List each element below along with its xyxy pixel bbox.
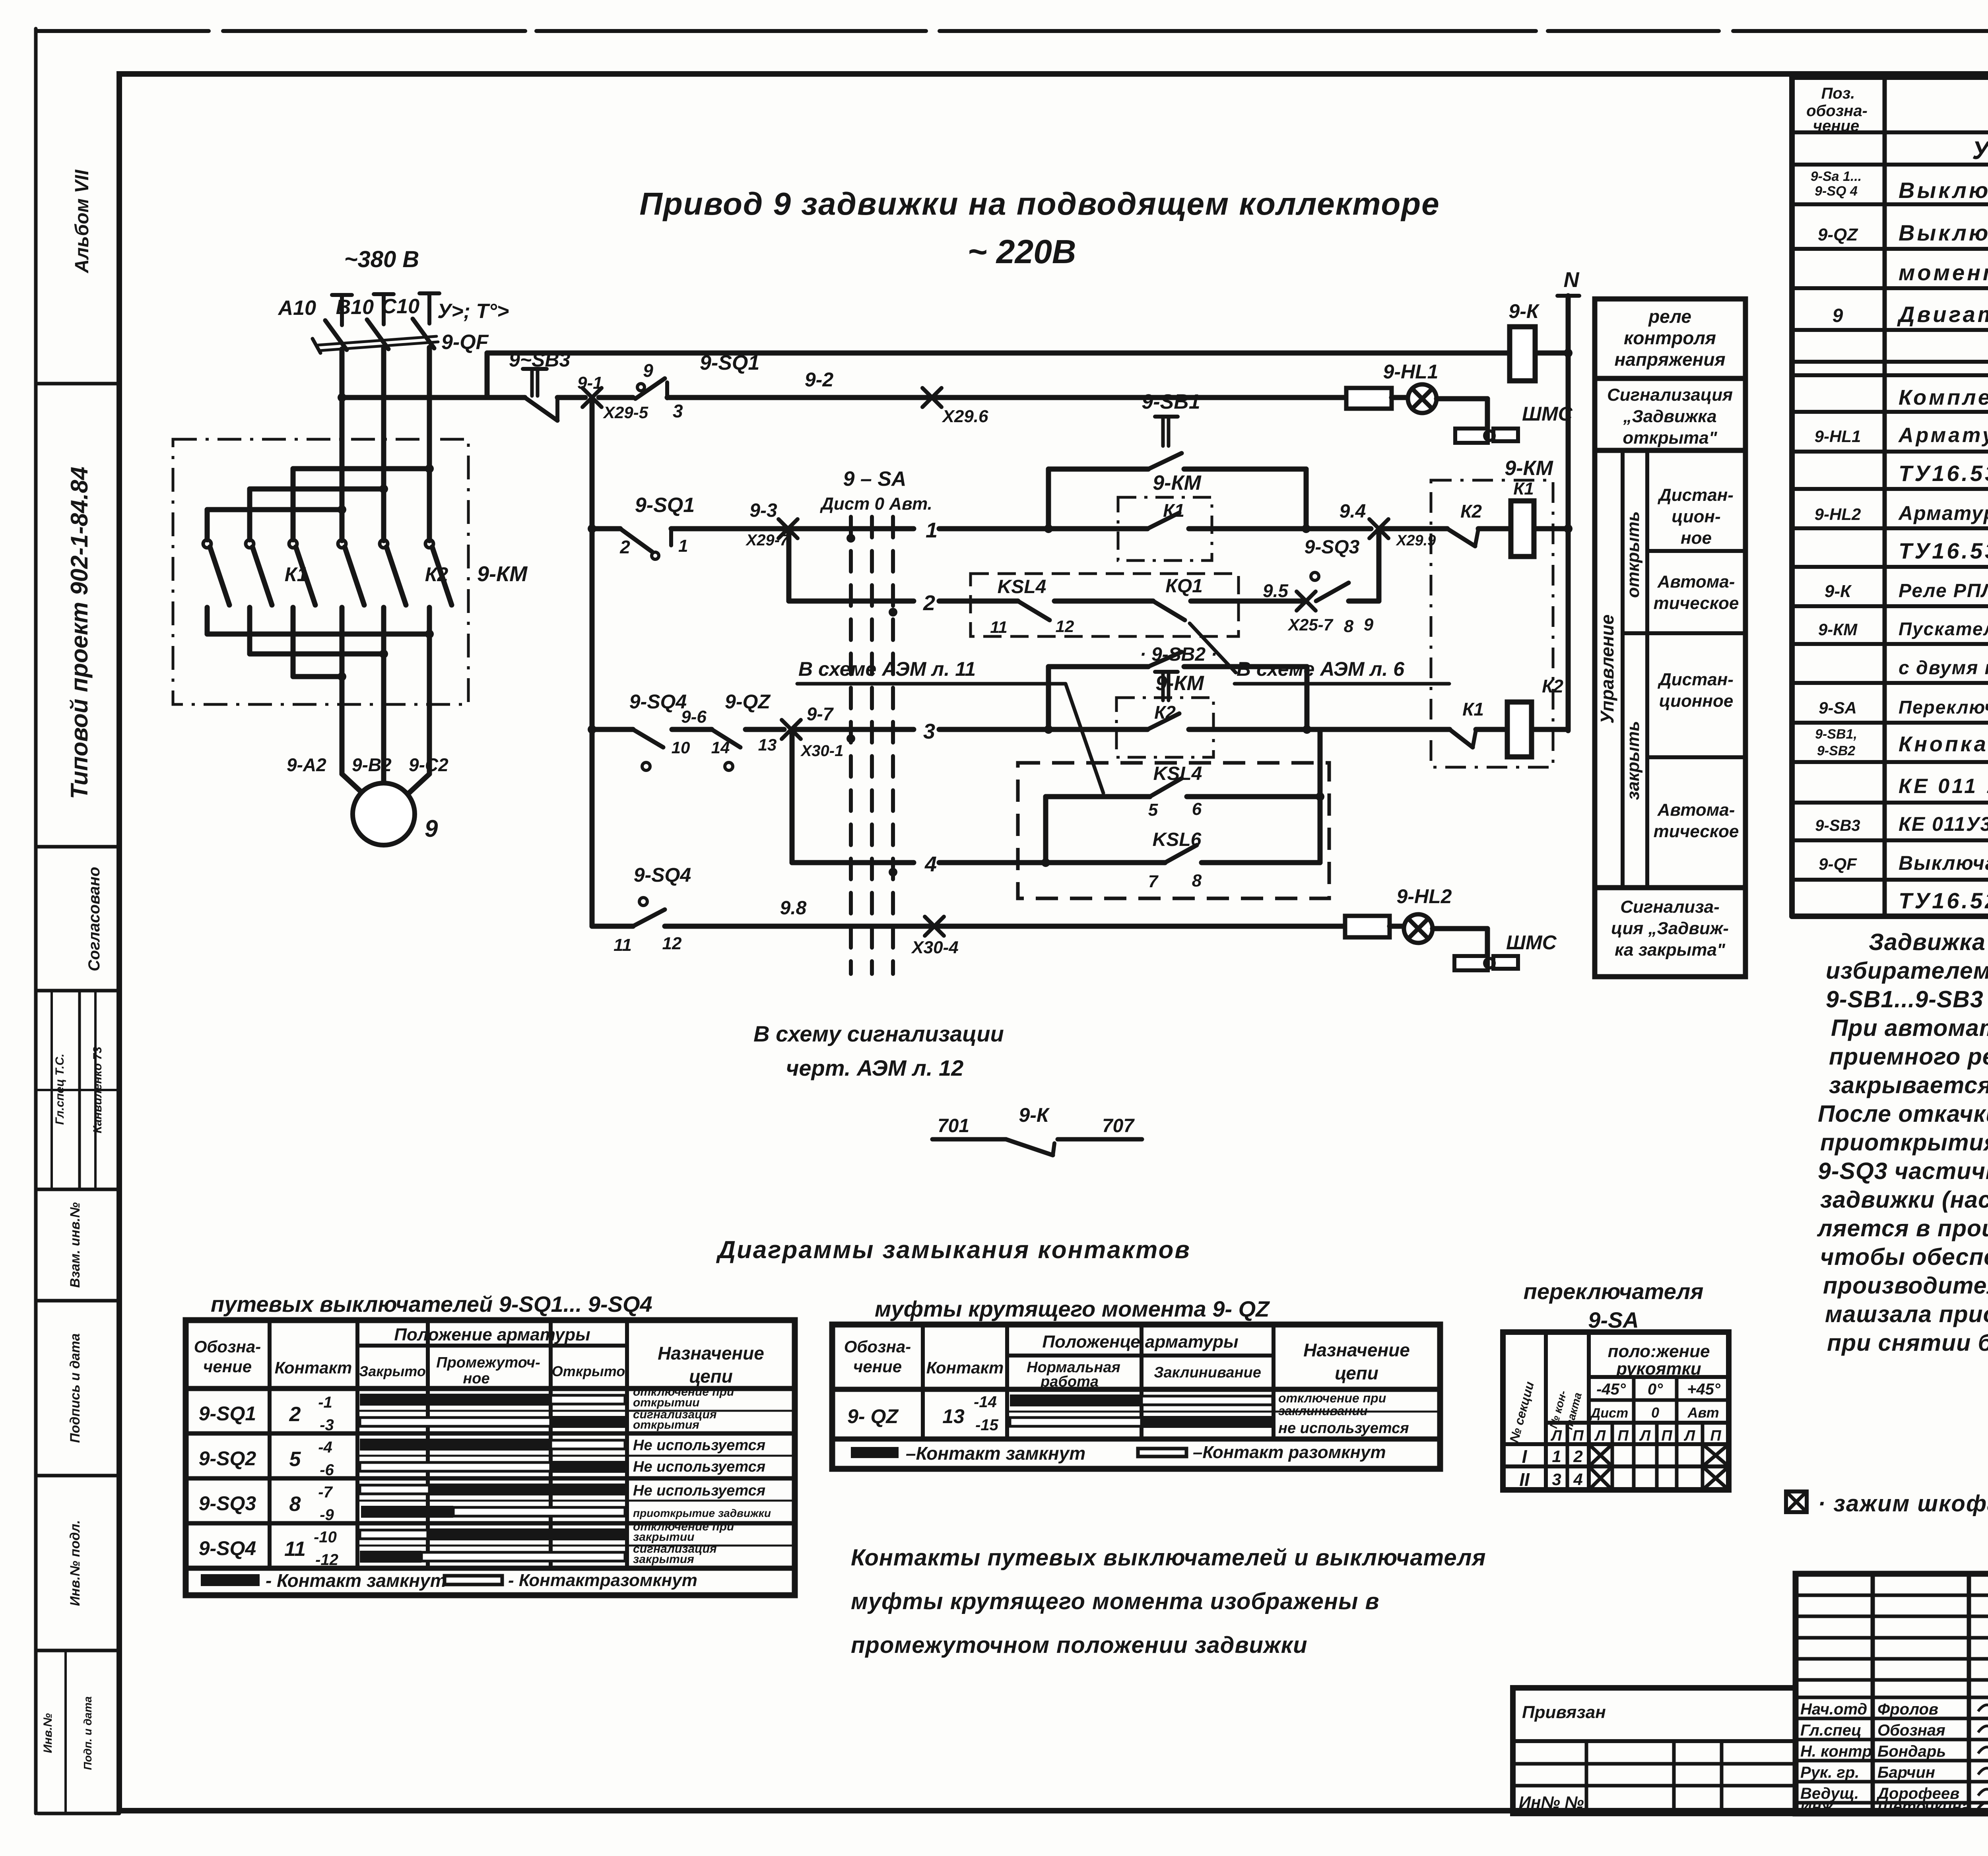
svg-text:Открыто: Открыто bbox=[552, 1363, 625, 1379]
svg-text:Диаграммы замыкания ко: Диаграммы замыкания контактов bbox=[716, 1236, 1191, 1264]
svg-text:чение: чение bbox=[1813, 117, 1859, 135]
svg-text:9-HL2: 9-HL2 bbox=[1815, 505, 1861, 524]
svg-text:ционное: ционное bbox=[1659, 691, 1734, 711]
contactor pole 6 bbox=[425, 540, 433, 548]
svg-text:закрытия: закрытия bbox=[633, 1553, 694, 1566]
svg-text:чение: чение bbox=[853, 1357, 902, 1376]
contactor coils dash-dot box bbox=[1431, 480, 1553, 767]
svg-text:3: 3 bbox=[1552, 1470, 1561, 1489]
svg-text:9-SB1,: 9-SB1, bbox=[1815, 727, 1857, 742]
table torque switch grid bbox=[832, 1325, 1440, 1469]
svg-text:Л: Л bbox=[1550, 1427, 1562, 1444]
svg-text:ШМС: ШМС bbox=[1506, 931, 1557, 954]
svg-text:Дистан-: Дистан- bbox=[1657, 485, 1734, 505]
contact KSL4 5-6 branch bbox=[1043, 797, 1048, 863]
pushbutton 9-SB2 bypass loop bbox=[1046, 667, 1051, 729]
svg-text:черт. АЭМ л. 12: черт. АЭМ л. 12 bbox=[786, 1055, 964, 1080]
svg-text:Дистан-: Дистан- bbox=[1657, 670, 1734, 689]
table selector data bbox=[1519, 1444, 1729, 1490]
function box: signal valve closed bbox=[1595, 888, 1745, 977]
svg-text:-45°: -45° bbox=[1596, 1381, 1626, 1398]
table selector grid bbox=[1503, 1332, 1729, 1490]
svg-text:с двумя приставками контактным: с двумя приставками контактными ПКЛ2204 bbox=[1899, 657, 1988, 679]
svg-text:Выключатель муфты крутящег: Выключатель муфты крутящего bbox=[1899, 220, 1988, 245]
svg-text:Авт: Авт bbox=[1687, 1404, 1719, 1421]
svg-text:9-КМ: 9-КМ bbox=[1155, 672, 1204, 695]
svg-text:Рук. гр.: Рук. гр. bbox=[1800, 1764, 1859, 1781]
svg-text:Привязан: Привязан bbox=[1522, 1703, 1606, 1722]
contactor 9-KM power dash-dot box bbox=[173, 439, 468, 704]
svg-text:9: 9 bbox=[1833, 305, 1843, 326]
svg-text:10: 10 bbox=[672, 738, 690, 757]
interlock contact K1 on rail5 bbox=[1307, 727, 1450, 732]
svg-text:Закрыто: Закрыто bbox=[359, 1363, 426, 1379]
svg-text:9-КМ: 9-КМ bbox=[1153, 471, 1202, 495]
terminal X29-7 bbox=[779, 519, 798, 538]
svg-text:напряжения: напряжения bbox=[1614, 349, 1725, 370]
svg-text:Положение арматуры: Положение арматуры bbox=[394, 1325, 590, 1344]
svg-text:9- QZ: 9- QZ bbox=[847, 1405, 899, 1427]
svg-text:Арматура АМЕ 3232Н1У2, U~: Арматура АМЕ 3232Н1У2, U~ 220В, bbox=[1898, 424, 1988, 447]
table torque switch data bbox=[847, 1391, 1409, 1437]
svg-text:12: 12 bbox=[662, 934, 682, 953]
svg-text:Задвижка имеет два вида уп: Задвижка имеет два вида управления, выби… bbox=[1869, 929, 1988, 955]
left control bus bbox=[590, 399, 595, 926]
svg-text:9-В2: 9-В2 bbox=[352, 754, 392, 775]
svg-text:1: 1 bbox=[1552, 1447, 1561, 1466]
svg-text:9-SA: 9-SA bbox=[1819, 698, 1857, 717]
svg-text:приемного резервуара или за: приемного резервуара или затоплении машз… bbox=[1829, 1043, 1988, 1070]
svg-text:13: 13 bbox=[758, 735, 777, 754]
svg-text:Сигнализа-: Сигнализа- bbox=[1620, 897, 1720, 917]
wire K1 pole3 output to A column bbox=[291, 607, 296, 677]
svg-text:тическое: тическое bbox=[1654, 822, 1739, 841]
svg-text:Выключатель путевой ВП-4: Выключатель путевой ВП-4 bbox=[1899, 178, 1988, 203]
svg-text:В схему сигнализации: В схему сигнализации bbox=[753, 1021, 1004, 1046]
svg-text:Привод 9 задвижки на подво: Привод 9 задвижки на подводящем коллекто… bbox=[639, 186, 1440, 221]
svg-text:КЕ 011 У3, исполн. 4: КЕ 011 У3, исполн. 4 bbox=[1899, 775, 1988, 798]
svg-text:П: П bbox=[1661, 1427, 1672, 1444]
svg-text:открыть: открыть bbox=[1623, 511, 1643, 598]
svg-text:-14: -14 bbox=[974, 1393, 997, 1411]
svg-text:9-HL1: 9-HL1 bbox=[1383, 361, 1439, 383]
svg-text:закрыть: закрыть bbox=[1623, 721, 1643, 800]
svg-text:КQ1: КQ1 bbox=[1165, 576, 1203, 597]
parts table rows bbox=[1811, 136, 1988, 913]
svg-text:9-КМ: 9-КМ bbox=[1505, 457, 1553, 480]
svg-text:11: 11 bbox=[284, 1538, 306, 1561]
svg-text:Инв.№ подл.: Инв.№ подл. bbox=[68, 1520, 83, 1606]
svg-text:работа: работа bbox=[1040, 1373, 1099, 1390]
svg-text:Инв.№: Инв.№ bbox=[41, 1713, 54, 1753]
svg-text:-10: -10 bbox=[314, 1528, 337, 1546]
table limit switches data bbox=[199, 1385, 771, 1569]
svg-text:Согласовано: Согласовано bbox=[85, 867, 103, 972]
svg-text:Дист 0 Авт.: Дист 0 Авт. bbox=[819, 494, 932, 514]
svg-text:„Задвижка: „Задвижка bbox=[1623, 407, 1716, 426]
svg-text:9-С2: 9-С2 bbox=[409, 754, 448, 775]
wire K1 pole3 to phase C bbox=[291, 469, 296, 540]
svg-text:Автома-: Автома- bbox=[1657, 572, 1735, 592]
wire motor lead B bbox=[381, 607, 386, 785]
svg-text:9-К: 9-К bbox=[1825, 582, 1852, 601]
svg-text:П: П bbox=[1573, 1427, 1584, 1444]
svg-text:В схеме АЭМ л. 11: В схеме АЭМ л. 11 bbox=[798, 658, 976, 680]
svg-text:707: 707 bbox=[1102, 1115, 1135, 1136]
wire K1 pole1 to phase A bbox=[205, 510, 210, 540]
svg-text:ное: ное bbox=[1681, 528, 1712, 548]
svg-text:Назначение: Назначение bbox=[658, 1343, 764, 1363]
svg-text:открытии: открытии bbox=[633, 1396, 699, 1409]
node phase A control tap bbox=[338, 393, 346, 402]
svg-text:контроля: контроля bbox=[1624, 328, 1716, 348]
svg-text:X30-4: X30-4 bbox=[911, 938, 958, 957]
svg-text:ТУ16.535.582 - 76: ТУ16.535.582 - 76 bbox=[1899, 461, 1988, 486]
wire control feed bbox=[342, 395, 487, 400]
svg-text:9.5: 9.5 bbox=[1263, 580, 1289, 601]
svg-text:Обозна-: Обозна- bbox=[194, 1337, 261, 1356]
svg-text:У>; Т°>: У>; Т°> bbox=[437, 300, 509, 323]
wire 9-2 bbox=[667, 395, 932, 400]
wire 9.8 bbox=[665, 924, 934, 929]
svg-text:Н. контр: Н. контр bbox=[1800, 1743, 1872, 1760]
table limit switches legend bbox=[201, 1574, 260, 1586]
svg-text:11: 11 bbox=[990, 618, 1008, 636]
svg-text:ция „Задвиж-: ция „Задвиж- bbox=[1611, 919, 1729, 938]
svg-text:Промежуточ-: Промежуточ- bbox=[436, 1354, 540, 1371]
svg-text:14: 14 bbox=[711, 738, 730, 757]
aux contact K1 on rail3 bbox=[1048, 526, 1147, 531]
svg-text:–Контакт замкнут: –Контакт замкнут bbox=[906, 1443, 1085, 1464]
svg-text:9-2: 9-2 bbox=[805, 368, 833, 391]
svg-text:9-SB2: 9-SB2 bbox=[1817, 743, 1855, 758]
svg-text:-3: -3 bbox=[320, 1416, 334, 1434]
svg-text:9-SQ1: 9-SQ1 bbox=[199, 1402, 256, 1425]
table torque switch legend bbox=[851, 1447, 899, 1458]
svg-text:Назначение: Назначение bbox=[1303, 1340, 1410, 1360]
svg-text:при снятии блокировки посл: при снятии блокировки после ликвидации з… bbox=[1827, 1330, 1988, 1356]
svg-text:Арматура АМЕ-321211 1У2,: Арматура АМЕ-321211 1У2, U~ 2 20В, bbox=[1898, 502, 1988, 524]
svg-text:9-6: 9-6 bbox=[681, 707, 707, 727]
svg-text:Не используется: Не используется bbox=[633, 1482, 765, 1499]
wire motor lead C bbox=[427, 607, 432, 774]
wire rail2 to resistor bbox=[932, 395, 1346, 400]
wire phase B vertical bbox=[381, 348, 386, 541]
svg-text:Контакты путевых выключате: Контакты путевых выключателей и выключат… bbox=[851, 1545, 1486, 1571]
svg-text:2: 2 bbox=[1573, 1447, 1582, 1466]
svg-text:Л: Л bbox=[1683, 1427, 1695, 1444]
svg-text:К1: К1 bbox=[1513, 479, 1534, 498]
svg-text:9-К: 9-К bbox=[1019, 1104, 1050, 1126]
wire rail4 bbox=[789, 599, 914, 604]
svg-text:промежуточном положении за: промежуточном положении задвижки bbox=[851, 1632, 1308, 1658]
svg-text:рукоятки: рукоятки bbox=[1616, 1359, 1701, 1379]
ballast resistor HL2 bbox=[1345, 916, 1390, 937]
svg-text:8: 8 bbox=[289, 1493, 301, 1516]
svg-text:I: I bbox=[1522, 1446, 1528, 1467]
wire rail7 to resistor bbox=[934, 924, 1345, 929]
svg-text:+45°: +45° bbox=[1687, 1381, 1721, 1398]
svg-text:8: 8 bbox=[1192, 871, 1202, 890]
svg-text:9-HL1: 9-HL1 bbox=[1815, 427, 1861, 446]
svg-text:2: 2 bbox=[289, 1403, 301, 1426]
svg-text:Обозна-: Обозна- bbox=[844, 1337, 911, 1356]
svg-text:цепи: цепи bbox=[689, 1366, 733, 1387]
svg-text:ТУ16.522.064 - 82: ТУ16.522.064 - 82 bbox=[1899, 888, 1988, 913]
svg-text:9-QF: 9-QF bbox=[1819, 855, 1857, 874]
svg-text:-12: -12 bbox=[315, 1551, 338, 1569]
svg-text:Контакт: Контакт bbox=[926, 1358, 1004, 1377]
svg-text:1: 1 bbox=[926, 518, 938, 542]
svg-text:задвижки (настройка путевого: задвижки (настройка путевого выключателя… bbox=[1820, 1187, 1988, 1213]
wire K1 pole2 to phase B bbox=[247, 489, 252, 540]
svg-text:Бондарь: Бондарь bbox=[1877, 1743, 1946, 1760]
svg-text:3: 3 bbox=[673, 401, 683, 421]
svg-text:701: 701 bbox=[938, 1115, 969, 1136]
svg-text:9-SQ4: 9-SQ4 bbox=[199, 1537, 256, 1559]
contactor aux 9-KM K2 box bbox=[1116, 698, 1213, 757]
svg-text:- Контакт замкнут: - Контакт замкнут bbox=[266, 1570, 447, 1591]
svg-text:поло:жение: поло:жение bbox=[1608, 1342, 1710, 1361]
svg-text:4: 4 bbox=[1573, 1470, 1582, 1489]
svg-text:цепи: цепи bbox=[1335, 1363, 1378, 1383]
contactor pole 5 bbox=[380, 540, 388, 548]
svg-text:0: 0 bbox=[1651, 1404, 1659, 1421]
svg-text:заклинивании: заклинивании bbox=[1278, 1404, 1368, 1418]
selector contact dots bbox=[846, 534, 855, 543]
svg-text:Пускатель ПМЛ-150104, U~220В,: Пускатель ПМЛ-150104, U~220В, ТУ16.526.4… bbox=[1899, 619, 1988, 639]
svg-text:6: 6 bbox=[1192, 799, 1202, 819]
svg-text:9-КМ: 9-КМ bbox=[1818, 620, 1858, 639]
parts table grid bbox=[1792, 77, 1988, 916]
title block frame bbox=[1796, 1574, 1988, 1813]
svg-text:реле: реле bbox=[1648, 306, 1691, 327]
wire rail2 start bbox=[487, 395, 525, 400]
svg-text:открытия: открытия bbox=[633, 1418, 699, 1431]
contactor aux 9-KM K1 box bbox=[1118, 497, 1212, 560]
svg-text:4: 4 bbox=[924, 852, 937, 876]
svg-text:В10: В10 bbox=[336, 296, 374, 319]
svg-text:11: 11 bbox=[613, 935, 632, 955]
wire K1 pole2 output to B column bbox=[247, 607, 252, 654]
svg-text:9-Sа 1...: 9-Sа 1... bbox=[1811, 169, 1862, 184]
title block signatures bbox=[1800, 1699, 1988, 1815]
wire rail5 through selector bbox=[791, 727, 914, 732]
svg-text:X30-1: X30-1 bbox=[800, 742, 844, 760]
contactor pole 1 bbox=[203, 540, 211, 548]
svg-text:С10: С10 bbox=[382, 295, 419, 318]
svg-text:У механизма: У механизма bbox=[1972, 136, 1988, 165]
wire lamp to ShMS bbox=[1437, 396, 1487, 401]
svg-text:Инж.: Инж. bbox=[1800, 1798, 1838, 1815]
contactor pole 4 bbox=[338, 540, 346, 548]
svg-text:-7: -7 bbox=[318, 1484, 333, 1501]
svg-text:X29-7: X29-7 bbox=[745, 531, 789, 549]
svg-text:избирателем 9-SA: дистанционно: избирателем 9-SA: дистанционное с помощь… bbox=[1826, 958, 1988, 984]
svg-text:К1: К1 bbox=[1462, 699, 1484, 720]
svg-text:5: 5 bbox=[289, 1448, 301, 1471]
border outer left line bbox=[34, 29, 38, 1813]
svg-text:9-7: 9-7 bbox=[807, 704, 834, 724]
svg-text:9-А2: 9-А2 bbox=[287, 754, 326, 775]
svg-text:Дист: Дист bbox=[1590, 1406, 1628, 1421]
svg-text:Обозная: Обозная bbox=[1877, 1722, 1945, 1739]
svg-text:-15: -15 bbox=[975, 1416, 999, 1434]
svg-text:Взам. инв.№: Взам. инв.№ bbox=[68, 1202, 83, 1288]
svg-text:-1: -1 bbox=[318, 1394, 332, 1411]
svg-text:9-SB3: 9-SB3 bbox=[1815, 817, 1860, 834]
svg-text:Альбом VII: Альбом VII bbox=[72, 169, 93, 273]
svg-text:2: 2 bbox=[923, 591, 935, 615]
svg-text:чтобы обеспечить приток ст: чтобы обеспечить приток стаков в количес… bbox=[1820, 1244, 1988, 1270]
link rail3-rail4 bbox=[1376, 529, 1382, 601]
svg-text:цион-: цион- bbox=[1672, 507, 1720, 526]
svg-text:9-HL2: 9-HL2 bbox=[1397, 885, 1452, 908]
svg-text:Автома-: Автома- bbox=[1657, 800, 1735, 820]
KSL KQ dashed box on rail4 bbox=[971, 574, 1239, 636]
svg-text:Контакт: Контакт bbox=[275, 1358, 352, 1377]
svg-text:Л: Л bbox=[1639, 1427, 1651, 1444]
description paragraph bbox=[1817, 929, 1988, 1356]
svg-text:9: 9 bbox=[425, 815, 438, 842]
svg-text:Кнопка, ТУ16. 526.: Кнопка, ТУ16. 526. 407 - 79 bbox=[1899, 732, 1988, 756]
svg-text:7: 7 bbox=[1148, 872, 1159, 891]
svg-text:отключение при: отключение при bbox=[1278, 1391, 1386, 1405]
margin stamp table bbox=[38, 845, 119, 849]
svg-text:12: 12 bbox=[1056, 617, 1074, 636]
svg-text:X29-5: X29-5 bbox=[603, 403, 648, 422]
wire rail6 bbox=[792, 860, 914, 865]
svg-text:X25-7: X25-7 bbox=[1287, 615, 1334, 634]
wire lamp2 to ShMS bbox=[1433, 926, 1487, 931]
svg-text:Управление: Управление bbox=[1597, 615, 1617, 724]
svg-text:Сигнализация: Сигнализация bbox=[1607, 385, 1733, 405]
svg-text:9-SQ4: 9-SQ4 bbox=[629, 690, 687, 713]
function box: voltage control relay bbox=[1595, 299, 1745, 378]
svg-text:Ин№ №: Ин№ № bbox=[1519, 1793, 1584, 1811]
svg-text:ляется в процессе наладки: ляется в процессе наладки и эксплуатации… bbox=[1817, 1215, 1988, 1241]
border top line bbox=[38, 29, 1988, 33]
svg-text:9-SQ3: 9-SQ3 bbox=[1305, 537, 1360, 558]
svg-text:2: 2 bbox=[619, 537, 630, 557]
cabinet terminal ShMS top bbox=[1455, 429, 1488, 443]
svg-text:1: 1 bbox=[678, 536, 688, 556]
svg-text:9-QF: 9-QF bbox=[441, 331, 489, 354]
svg-text:9-SA: 9-SA bbox=[1588, 1307, 1639, 1332]
KSL dashed box bbox=[1018, 763, 1329, 898]
wire rail5 from bus bbox=[592, 727, 633, 732]
pushbutton 9-SB1 bypass loop bbox=[1046, 469, 1051, 529]
svg-text:К2: К2 bbox=[1542, 676, 1563, 696]
svg-text:9: 9 bbox=[1364, 615, 1374, 634]
svg-text:Л: Л bbox=[1594, 1427, 1606, 1444]
wire drop to rail6 bbox=[790, 729, 795, 863]
svg-text:муфты крутящего момента: муфты крутящего момента 9- QZ bbox=[875, 1296, 1270, 1321]
svg-text:9 – SA: 9 – SA bbox=[843, 467, 907, 491]
svg-text:муфты крутящего момента: муфты крутящего момента изображены в bbox=[851, 1588, 1380, 1614]
svg-text:II: II bbox=[1519, 1469, 1530, 1490]
svg-text:· зажим шкофа шус: · зажим шкофа шус bbox=[1818, 1491, 1988, 1517]
note clamp of cabinet ShUS bbox=[1786, 1491, 1988, 1517]
contactor pole 3 bbox=[289, 540, 297, 548]
svg-text:8: 8 bbox=[1344, 617, 1354, 636]
svg-text:–Контакт разомкнут: –Контакт разомкнут bbox=[1193, 1443, 1386, 1462]
svg-text:9-SQ3 частично открывается.: 9-SQ3 частично открывается. Величина при… bbox=[1818, 1158, 1988, 1184]
relay coil 9-K bbox=[1510, 327, 1535, 381]
wire rail1 top bbox=[487, 351, 1510, 356]
svg-text:9: 9 bbox=[643, 360, 653, 381]
svg-text:При автоматическом управлени: При автоматическом управлении, в случае … bbox=[1831, 1015, 1988, 1041]
svg-text:13: 13 bbox=[942, 1405, 965, 1427]
wire rail3 through selector bbox=[788, 526, 914, 531]
terminal X30-4 bbox=[925, 917, 944, 936]
svg-text:А10: А10 bbox=[278, 297, 316, 320]
relay coil K2 of 9-KM bbox=[1507, 702, 1532, 757]
wire phase C vertical bbox=[427, 347, 432, 541]
aux contact K2 on rail5 bbox=[1048, 727, 1147, 732]
svg-text:Щеточкина: Щеточкина bbox=[1877, 1798, 1971, 1815]
svg-text:закрытии: закрытии bbox=[633, 1530, 694, 1544]
svg-text:9-SQ1: 9-SQ1 bbox=[635, 494, 695, 517]
svg-text:В схеме АЭМ л. 6: В схеме АЭМ л. 6 bbox=[1237, 658, 1405, 680]
svg-text:9-QZ: 9-QZ bbox=[1818, 225, 1858, 244]
svg-text:ШМС: ШМС bbox=[1522, 403, 1573, 425]
svg-text:9-SQ3: 9-SQ3 bbox=[199, 1492, 256, 1515]
svg-text:не используется: не используется bbox=[1278, 1420, 1409, 1437]
svg-text:- Контактразомкнут: - Контактразомкнут bbox=[508, 1571, 697, 1590]
svg-text:0°: 0° bbox=[1648, 1381, 1663, 1398]
svg-text:открыта": открыта" bbox=[1623, 428, 1717, 448]
svg-text:Двигатель 4АС100L4У3: Двигатель 4АС100L4У3 bbox=[1897, 302, 1988, 327]
wire rail3 from bus bbox=[592, 526, 620, 531]
svg-text:переключателя: переключателя bbox=[1524, 1279, 1704, 1304]
svg-text:Комплектное устройство, шкаф: Комплектное устройство, шкаф ШУС bbox=[1899, 386, 1988, 409]
svg-text:KSL4: KSL4 bbox=[998, 576, 1046, 597]
function box: signal valve open bbox=[1595, 378, 1745, 450]
terminal X29-6 bbox=[922, 388, 942, 407]
svg-text:-6: -6 bbox=[320, 1461, 334, 1479]
svg-text:Не используется: Не используется bbox=[633, 1437, 765, 1454]
svg-text:Положенце арматуры: Положенце арматуры bbox=[1042, 1332, 1238, 1352]
contactor pole 2 bbox=[246, 540, 254, 548]
svg-text:5: 5 bbox=[1148, 800, 1158, 820]
svg-text:Барчин: Барчин bbox=[1877, 1764, 1935, 1781]
svg-text:9-КМ: 9-КМ bbox=[477, 562, 528, 586]
svg-text:путевых выключателей 9-SQ1: путевых выключателей 9-SQ1... 9-SQ4 bbox=[211, 1292, 652, 1317]
svg-text:КЕ 011У3, исполн. 5, толк. к: КЕ 011У3, исполн. 5, толк. красн. bbox=[1899, 813, 1988, 835]
wire rail2 to SQ1 bbox=[599, 395, 633, 400]
svg-text:тическое: тическое bbox=[1654, 593, 1739, 613]
cabinet terminal ShMS bottom bbox=[1454, 956, 1488, 970]
svg-text:Не используется: Не используется bbox=[633, 1458, 765, 1475]
svg-text:3: 3 bbox=[923, 720, 935, 743]
svg-text:9-3: 9-3 bbox=[749, 500, 777, 521]
svg-text:9-SB1: 9-SB1 bbox=[1142, 390, 1200, 413]
svg-text:Гл.спец: Гл.спец bbox=[1800, 1722, 1862, 1739]
motor 9 bbox=[353, 783, 415, 845]
svg-text:Переключатель УП5311-С225У3, Т: Переключатель УП5311-С225У3, ТУ16.524.07… bbox=[1899, 697, 1988, 718]
svg-text:-9: -9 bbox=[320, 1506, 334, 1524]
ballast resistor HL1 bbox=[1346, 388, 1392, 409]
svg-text:9-SB1...9-SB3 с комплектного у: 9-SB1...9-SB3 с комплектного устройства … bbox=[1826, 986, 1988, 1012]
svg-text:П: П bbox=[1710, 1427, 1721, 1444]
svg-text:9-QZ: 9-QZ bbox=[725, 690, 771, 713]
svg-text:N: N bbox=[1564, 268, 1580, 292]
svg-text:9-SQ2: 9-SQ2 bbox=[199, 1447, 256, 1470]
svg-text:ка закрыта": ка закрыта" bbox=[1615, 940, 1726, 960]
margin divider line bbox=[38, 382, 119, 386]
terminal X29-9 bbox=[1369, 519, 1388, 538]
